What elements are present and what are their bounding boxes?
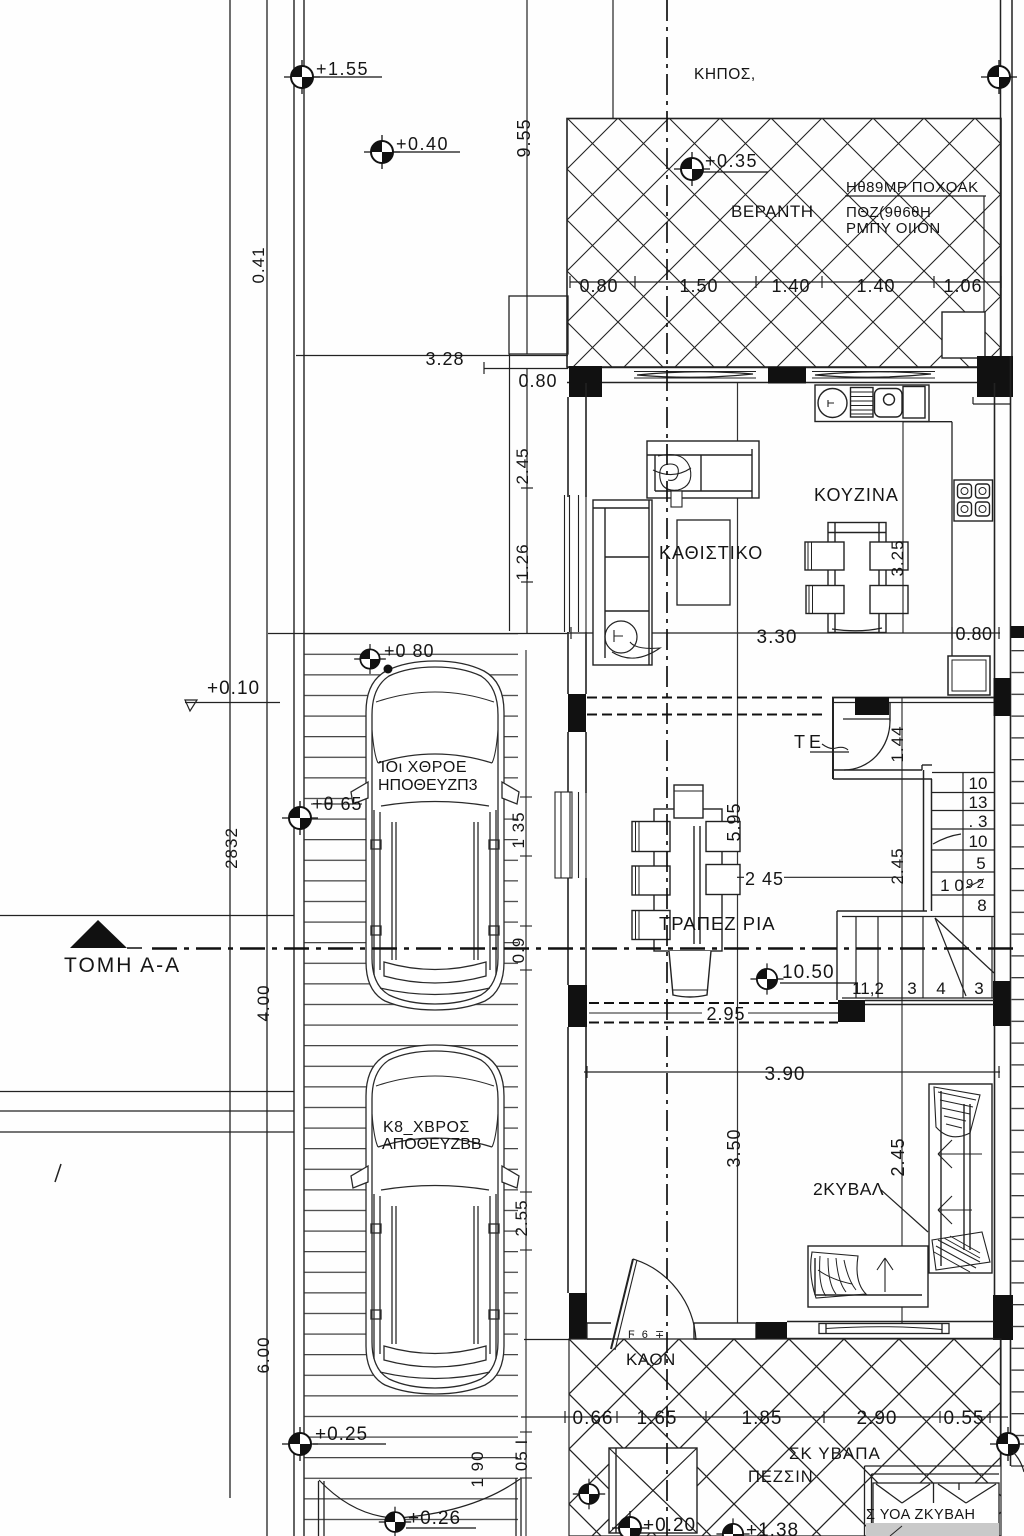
counter right cell (903, 387, 925, 419)
svg-text:3: 3 (907, 979, 916, 998)
road line left a (0, 1091, 294, 1093)
wall segment below window W3 (567, 632, 569, 694)
svg-text:9.55: 9.55 (514, 118, 534, 157)
veranda door swing arc (633, 1259, 696, 1340)
wall segment below column (567, 732, 569, 793)
dim line 3.90 lower room (584, 1066, 1000, 1078)
spot level +0.26 (379, 1507, 411, 1536)
svg-text:05 I: 05 I (512, 1439, 531, 1471)
svg-text:4.00: 4.00 (254, 984, 273, 1021)
svg-text:1.44: 1.44 (888, 725, 907, 762)
chair dining left 2 (632, 866, 670, 895)
svg-text:2 45: 2 45 (745, 869, 784, 889)
svg-text:1.85: 1.85 (742, 1408, 783, 1429)
svg-text:. 3: . 3 (969, 812, 988, 831)
svg-text:Σ ΥΟΑ ΖΚΥΒΑΗ: Σ ΥΟΑ ΖΚΥΒΑΗ (866, 1507, 976, 1523)
stair cut diagonals (935, 918, 966, 996)
vertical dim line 9.55 (526, 0, 528, 354)
spot level marker +1.55 (284, 60, 320, 94)
spot level marker +10.50 (750, 963, 783, 994)
vertical line above veranda (612, 0, 614, 118)
wall under stairs (865, 1000, 994, 1002)
svg-text:0.80: 0.80 (579, 276, 618, 296)
svg-text:Ηθ89ΜΡ ΠΟΧΟΑΚ: Ηθ89ΜΡ ΠΟΧΟΑΚ (846, 179, 979, 196)
svg-text:3.30: 3.30 (757, 627, 798, 648)
interior dim line 3.30 / 0.80 (567, 627, 1000, 639)
svg-text:ΤΟΜΗ Α-Α: ΤΟΜΗ Α-Α (64, 954, 181, 977)
parking dim line right (520, 650, 532, 1536)
car 2 (351, 1045, 519, 1394)
boundary corner marker top right (981, 60, 1017, 94)
sash v-marks cell 1 (876, 1484, 902, 1503)
spot level +0.20 (612, 1511, 648, 1536)
plant scribble on sofa (658, 455, 691, 491)
lower room bottom wall (587, 1322, 994, 1340)
threshold line below door (843, 718, 890, 720)
kitchen counter with sink (815, 385, 929, 422)
spot level marker +0.40 (364, 135, 400, 169)
chair dining bottom (669, 951, 711, 997)
svg-text:ΣΚ ΥΒΑΠΑ: ΣΚ ΥΒΑΠΑ (789, 1444, 881, 1463)
svg-text:6.00: 6.00 (254, 1336, 273, 1373)
svg-text:ΠΕΖΣΙΝ: ΠΕΖΣΙΝ (748, 1468, 814, 1486)
rug / low table living room (677, 520, 730, 605)
svg-text:+0.26: +0.26 (408, 1508, 461, 1529)
chair dining right 1 (706, 822, 740, 852)
svg-text:+0 80: +0 80 (384, 641, 435, 661)
svg-text:ΡΜΠΥ ΟΙΙΟΝ: ΡΜΠΥ ΟΙΙΟΝ (846, 220, 941, 237)
svg-text:1.40: 1.40 (856, 276, 895, 296)
entrance door black block (855, 697, 889, 715)
crumpled blanket (811, 1252, 866, 1298)
svg-text:+0.20: +0.20 (643, 1515, 696, 1536)
window W4 exterior sill slab (555, 792, 572, 878)
drainer board hatched (851, 388, 874, 418)
porch rectangle left of veranda (509, 296, 568, 354)
svg-text:2832: 2832 (222, 827, 241, 869)
small curve right bottom (1013, 1452, 1024, 1472)
column left wall at hall line (568, 694, 586, 732)
vertical dim line 1.44 / 2.45 (901, 697, 903, 1323)
fridge (948, 656, 990, 695)
spot level +1.38 (716, 1518, 749, 1536)
window W3 living room 4 lines (564, 495, 566, 632)
handrail curve (933, 834, 961, 844)
column mid top wall (768, 367, 806, 384)
window W2 sill lines (812, 371, 935, 373)
road line left c (0, 1131, 294, 1133)
bench window sill bottom (819, 1324, 949, 1334)
chair kitchen left 1 (805, 542, 844, 570)
svg-text:1.26: 1.26 (513, 543, 532, 580)
door swing arc (844, 721, 890, 770)
bottom dimension line (521, 1411, 1008, 1423)
svg-text:1 35: 1 35 (509, 811, 528, 848)
window W2 lens glass (815, 372, 931, 378)
sofa left (three-seater) (593, 500, 660, 665)
spot level +0.25 (282, 1427, 318, 1461)
wall segment below top-left column (567, 397, 569, 497)
entrance left wall (832, 698, 834, 780)
table inner lines (693, 826, 695, 944)
svg-text:+0.35: +0.35 (705, 151, 758, 171)
door leaf (889, 702, 891, 721)
svg-text:1.50: 1.50 (679, 276, 718, 296)
veranda small square box (942, 312, 985, 358)
L-sofa horizontal section (808, 1246, 928, 1307)
dim line 3.28 (296, 355, 568, 357)
svg-text:ΚΟΥΖΙΝΑ: ΚΟΥΖΙΝΑ (814, 485, 899, 505)
bottom right structure (865, 1466, 1002, 1536)
svg-text:3: 3 (974, 979, 983, 998)
planter box edge line in veranda (983, 196, 985, 312)
arrow on seat (877, 1258, 893, 1292)
svg-text:0.9: 0.9 (509, 937, 528, 964)
stair left wall upper flight (923, 770, 925, 911)
svg-text:1.06: 1.06 (943, 276, 982, 296)
vertical dim line left of living room (526, 368, 528, 633)
niche step notch (922, 764, 932, 766)
svg-text:2.45: 2.45 (513, 447, 532, 484)
vertical dim line kitchen 3.25 (902, 422, 904, 633)
svg-text:3.50: 3.50 (724, 1128, 744, 1167)
parking strip hatch (304, 633, 518, 1536)
washing machine circle (818, 389, 847, 418)
throw blanket hatch top (934, 1087, 980, 1137)
svg-text:ΚΑΘΙΣΤΙΚΟ: ΚΑΘΙΣΤΙΚΟ (659, 543, 763, 563)
chair dining left 3 (632, 911, 670, 940)
chair kitchen right 1 (870, 542, 908, 570)
wall segment below window W4 (567, 878, 569, 985)
svg-text:ΤΕ: ΤΕ (794, 732, 825, 752)
right wall of building (993, 356, 1024, 1466)
marker at veranda left (573, 1479, 605, 1510)
svg-text:+0.40: +0.40 (396, 134, 449, 154)
stair treads upper flight (932, 773, 994, 918)
section line A-A dash-dot (152, 947, 1014, 949)
building centerline dash-dot (666, 0, 668, 1536)
svg-text:+1.55: +1.55 (316, 59, 369, 79)
grey strip (866, 1523, 999, 1536)
column top-right corner (977, 356, 1013, 397)
svg-text:+0.25: +0.25 (315, 1424, 368, 1445)
svg-text:1 90: 1 90 (468, 1450, 487, 1487)
svg-text:10.50: 10.50 (782, 962, 835, 983)
veranda door leaf (611, 1259, 633, 1349)
dashed beam lines hall (587, 697, 822, 699)
plant at sofa end (605, 621, 637, 653)
column lower wall (756, 1322, 787, 1339)
svg-text:1 0: 1 0 (940, 876, 964, 895)
gate swing arcs (319, 1480, 393, 1518)
entrance top wall (832, 697, 994, 699)
boundary line 2 (266, 0, 268, 1536)
svg-text:2.45: 2.45 (888, 1137, 908, 1176)
chair kitchen left 2 (806, 586, 844, 614)
svg-text:8: 8 (977, 896, 986, 915)
section A-A triangle (70, 920, 127, 948)
chair kitchen right 2 (870, 586, 908, 614)
short dim line 0.80 wall (484, 368, 568, 370)
spot level +0.65 garbled (282, 801, 318, 835)
armrest line (963, 1104, 965, 1250)
svg-text:10: 10 (969, 774, 988, 793)
column right wall at kitchen/stairs (994, 678, 1011, 716)
svg-text:4: 4 (936, 979, 945, 998)
svg-text:ΗΠΟΘΕΥΖΠ3: ΗΠΟΘΕΥΖΠ3 (378, 777, 478, 794)
chair dining top (674, 785, 703, 818)
svg-text:ΒΕΡΑΝΤΗ: ΒΕΡΑΝΤΗ (731, 202, 814, 221)
svg-text:ΚΗΠΟΣ,: ΚΗΠΟΣ, (694, 66, 756, 83)
stove hob 4 burners (954, 480, 993, 521)
section A-A short baseline (127, 947, 142, 949)
veranda top cross-hatched area (567, 119, 1001, 368)
column at stair bottom left (838, 1000, 865, 1022)
side table under sofa (671, 491, 682, 507)
svg-text:ΠΘΖ(9θ6θΗ: ΠΘΖ(9θ6θΗ (846, 204, 931, 221)
hatch strip outside right wall (1012, 648, 1024, 1448)
svg-text:11,2: 11,2 (852, 979, 884, 998)
svg-text:+0.10: +0.10 (207, 678, 260, 699)
svg-text:5.95: 5.95 (724, 802, 744, 841)
entrance niche bottom wall (833, 769, 922, 771)
dashed beam lines dining bottom (589, 1002, 838, 1004)
planter square with X (609, 1448, 697, 1533)
left wall of building with windows (555, 383, 587, 1339)
svg-text:ΑΠΟΘΕΥΖΒΒ: ΑΠΟΘΕΥΖΒΒ (382, 1136, 482, 1153)
svg-text:2.55: 2.55 (512, 1199, 531, 1236)
wall segment lower room left (567, 1027, 569, 1293)
svg-text:3.25: 3.25 (888, 539, 907, 576)
svg-text:+1.38: +1.38 (746, 1520, 799, 1536)
gate left post (318, 1481, 320, 1536)
svg-text:5: 5 (976, 854, 985, 873)
dim line 2 45 (737, 876, 744, 878)
svg-text:0.66: 0.66 (573, 1408, 614, 1429)
column right wall at stairs bottom (993, 981, 1010, 1026)
svg-text:2.45: 2.45 (888, 847, 907, 884)
dining table (632, 785, 740, 997)
spot level +0.80 (354, 644, 386, 674)
svg-text:ΊΟι ΧΘΡΟΕ: ΊΟι ΧΘΡΟΕ (378, 759, 467, 776)
svg-text:10: 10 (969, 832, 988, 851)
chair dining right 2 (706, 865, 740, 895)
bottom veranda cross-hatched (569, 1339, 1001, 1536)
svg-text:13: 13 (969, 793, 988, 812)
column left wall dining bottom (568, 985, 587, 1027)
cushion arrows (938, 1140, 982, 1168)
svg-text:3.90: 3.90 (765, 1064, 806, 1085)
svg-text:0.80: 0.80 (955, 624, 992, 644)
interior grid line x737 (737, 383, 739, 1323)
kitchen counter right run edge (951, 422, 953, 656)
car 1 (351, 661, 519, 1010)
sink basin (875, 389, 903, 418)
top wall band with windows (567, 356, 1013, 404)
L-sofa vertical section (929, 1084, 992, 1273)
road line left b (0, 1110, 294, 1112)
chair dining left 1 (632, 822, 670, 852)
svg-text:0.41: 0.41 (249, 246, 268, 283)
svg-text:1.65: 1.65 (637, 1408, 678, 1429)
window W1 lens glass (637, 372, 753, 378)
sofa top (two-seater) (647, 441, 759, 507)
veranda dimension line (570, 276, 1001, 288)
svg-text:2ΚΥΒΑΛ: 2ΚΥΒΑΛ (813, 1179, 884, 1199)
window W4 dining 4 lines (560, 792, 562, 878)
veranda edge line extension left (524, 1339, 569, 1341)
plot boundary line far left (229, 0, 231, 1498)
boundary double line 4 (303, 0, 305, 1536)
small slash mark (55, 1164, 61, 1182)
svg-text:0.55: 0.55 (944, 1408, 985, 1429)
svg-text:2.90: 2.90 (857, 1408, 898, 1429)
spot level marker +0.35 (674, 152, 710, 186)
boundary double line 3 (293, 0, 295, 1536)
kitchen dining table (805, 523, 908, 633)
table bottom shade (832, 628, 882, 631)
marker right boundary bottom (990, 1427, 1024, 1461)
carport edge vertical line (509, 354, 511, 631)
column right wall bottom corner (993, 1295, 1013, 1340)
svg-text:2.95: 2.95 (706, 1004, 745, 1024)
svg-text:1.40: 1.40 (771, 276, 810, 296)
svg-text:0.80: 0.80 (518, 371, 557, 391)
column left wall bottom corner (569, 1293, 587, 1339)
right boundary wall outer double line (1000, 0, 1002, 356)
gate right post (515, 1478, 517, 1536)
blanket hatch bottom (932, 1232, 990, 1270)
small steps right of corner column (972, 397, 974, 404)
svg-text:Κ8_ΧΒΡΟΣ: Κ8_ΧΒΡΟΣ (383, 1119, 470, 1136)
dim 2.95 line and label (589, 1012, 702, 1014)
stair treads lower flight (842, 917, 994, 998)
sash v-marks cell 2 (938, 1484, 966, 1503)
parking top edge line (268, 633, 567, 635)
column top-left corner (569, 366, 602, 397)
road line upper left (0, 915, 294, 917)
stair lower flight enclosure (837, 910, 927, 912)
svg-text:ΤΡΑΠΕΖ ΡΙΑ: ΤΡΑΠΕΖ ΡΙΑ (659, 913, 776, 934)
svg-text:3.28: 3.28 (425, 349, 464, 369)
black stub outside right wall (1011, 626, 1024, 638)
window W1 sill lines (634, 371, 756, 373)
